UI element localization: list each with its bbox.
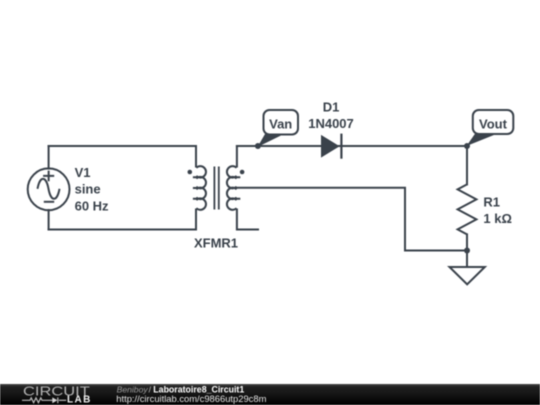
svg-text:R1: R1 <box>483 195 500 210</box>
svg-text:1N4007: 1N4007 <box>308 116 354 131</box>
svg-text:sine: sine <box>75 182 101 197</box>
svg-text:LAB: LAB <box>67 395 92 405</box>
svg-text:Vout: Vout <box>479 116 508 131</box>
svg-text:Van: Van <box>269 116 292 131</box>
svg-text:D1: D1 <box>323 100 340 115</box>
svg-text:http://circuitlab.com/c9866utp: http://circuitlab.com/c9866utp29c8m <box>116 393 266 404</box>
svg-text:V1: V1 <box>75 165 91 180</box>
svg-text:XFMR1: XFMR1 <box>194 236 238 251</box>
svg-text:1 kΩ: 1 kΩ <box>483 211 512 226</box>
svg-text:60 Hz: 60 Hz <box>75 198 109 213</box>
